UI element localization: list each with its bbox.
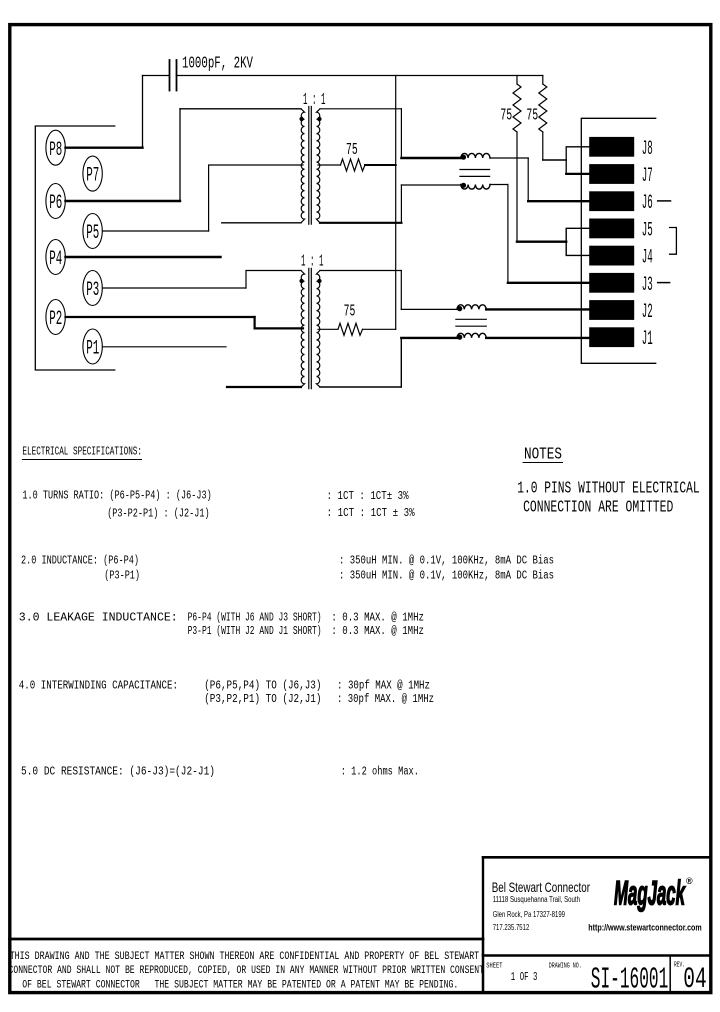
- wire L2 bottom to J1: [486, 337, 589, 339]
- svg-text:75: 75: [346, 140, 358, 159]
- transformer T2 phase dot secondary: [317, 279, 321, 283]
- title block outline: [483, 857, 710, 992]
- wire L1 top to J6: [490, 157, 528, 159]
- svg-text:: 1.2 ohms Max.: : 1.2 ohms Max.: [341, 765, 419, 778]
- svg-text:: 350uH MIN. @ 0.1V, 100KHz, 8: : 350uH MIN. @ 0.1V, 100KHz, 8mA DC Bias: [339, 555, 554, 568]
- pin P4: [46, 240, 65, 275]
- bracket J8/J7: [566, 147, 589, 174]
- svg-text:ELECTRICAL SPECIFICATIONS:: ELECTRICAL SPECIFICATIONS:: [22, 446, 142, 459]
- svg-text:P7: P7: [86, 165, 99, 188]
- svg-text:: 0.3 MAX. @ 1MHz: : 0.3 MAX. @ 1MHz: [331, 611, 424, 624]
- wire P4 stub: [66, 256, 221, 258]
- transformer T2 phase dot primary: [299, 279, 303, 283]
- pin header box (P1-P8 connector outline): [35, 126, 115, 370]
- wire T2 primary bottom stub: [227, 386, 301, 388]
- transformer T1 primary winding: [301, 109, 305, 223]
- bracket J5/J4: [566, 228, 589, 255]
- svg-text:J8: J8: [642, 138, 653, 161]
- transformer T2 primary winding: [301, 271, 305, 388]
- contact J5: [589, 219, 653, 243]
- svg-text:1 : 1: 1 : 1: [303, 90, 326, 109]
- svg-text:75: 75: [500, 106, 512, 125]
- center bus vertical (cap to R2): [395, 76, 397, 330]
- choke L2 core: [456, 319, 486, 326]
- svg-text:75: 75: [344, 302, 356, 321]
- transformer T1 phase dot primary: [299, 117, 303, 121]
- svg-text:1.0 TURNS RATIO: (P6-P5-P4) :: 1.0 TURNS RATIO: (P6-P5-P4) : (J6-J3): [22, 490, 211, 503]
- svg-text:MagJack: MagJack: [614, 875, 686, 913]
- wire capacitor to resistors (top bus): [177, 75, 543, 77]
- svg-text:(P3-P1): (P3-P1): [104, 570, 140, 583]
- svg-text:1000pF, 2KV: 1000pF, 2KV: [182, 54, 253, 73]
- choke L2 top winding: [457, 305, 486, 311]
- svg-text:CONNECTION ARE OMITTED: CONNECTION ARE OMITTED: [523, 498, 673, 517]
- transformer T1 phase dot secondary: [317, 117, 321, 121]
- tick J3: [658, 282, 670, 284]
- wire R3 to J5/J4 bracket: [517, 240, 566, 242]
- svg-text:1 : 1: 1 : 1: [301, 252, 324, 271]
- choke L1 top winding: [461, 153, 490, 159]
- pin P8: [46, 130, 65, 165]
- svg-text:J4: J4: [642, 247, 653, 270]
- svg-text:J7: J7: [642, 165, 653, 188]
- svg-text:http://www.stewartconnector.co: http://www.stewartconnector.com: [588, 922, 701, 933]
- svg-text:OF BEL STEWART CONNECTOR THE: OF BEL STEWART CONNECTOR THE SUBJECT MAT…: [22, 979, 458, 991]
- svg-text:P1: P1: [86, 338, 99, 361]
- wire P8 to capacitor: [66, 146, 143, 148]
- svg-text:717.235.7512: 717.235.7512: [493, 922, 530, 932]
- choke L1 bottom winding: [461, 183, 490, 189]
- svg-text:: 30pf MAX. @ 1MHz: : 30pf MAX. @ 1MHz: [337, 693, 434, 706]
- wire R4 to J8/J7 bracket: [543, 159, 566, 161]
- choke L2 bottom winding: [457, 333, 486, 339]
- svg-text:Bel Stewart Connector: Bel Stewart Connector: [492, 879, 591, 895]
- contact J8: [589, 137, 653, 161]
- tick J6: [658, 200, 671, 202]
- wire T1 primary bottom stub: [222, 222, 301, 224]
- pin P5: [83, 214, 102, 249]
- pin P1: [83, 329, 102, 364]
- svg-text:J5: J5: [642, 219, 653, 242]
- svg-text:P6-P4 (WITH J6 AND J3 SHORT): P6-P4 (WITH J6 AND J3 SHORT): [188, 611, 322, 624]
- transformer T1 secondary winding: [317, 109, 321, 223]
- transformer T1 core: [309, 107, 312, 225]
- heading NOTES: [523, 445, 562, 464]
- svg-text:1.0 PINS WITHOUT ELECTRICAL: 1.0 PINS WITHOUT ELECTRICAL: [517, 479, 699, 498]
- svg-text:: 350uH MIN. @ 0.1V, 100KHz, 8: : 350uH MIN. @ 0.1V, 100KHz, 8mA DC Bias: [339, 570, 554, 583]
- contact J1: [589, 327, 653, 351]
- svg-text:: 30pf MAX @ 1MHz: : 30pf MAX @ 1MHz: [337, 680, 430, 693]
- wire T1 secondary bottom: [320, 222, 401, 224]
- capacitor C1 1000pF 2KV: [143, 60, 177, 91]
- wire L1 bottom to J3: [490, 184, 508, 186]
- svg-text:P4: P4: [49, 248, 62, 271]
- pin P2: [46, 300, 65, 335]
- svg-text:®: ®: [686, 876, 693, 886]
- svg-text:THIS DRAWING AND THE SUBJECT M: THIS DRAWING AND THE SUBJECT MATTER SHOW…: [10, 951, 480, 963]
- wire P3 to T2 primary top: [103, 287, 247, 289]
- svg-text:(P6,P5,P4) TO (J6,J3): (P6,P5,P4) TO (J6,J3): [204, 680, 321, 693]
- resistor R4 75 (right vertical): [539, 76, 547, 161]
- svg-text:(P3,P2,P1) TO (J2,J1): (P3,P2,P1) TO (J2,J1): [204, 693, 321, 706]
- svg-text:J6: J6: [642, 192, 653, 215]
- svg-text:4.0 INTERWINDING CAPACITANCE:: 4.0 INTERWINDING CAPACITANCE:: [19, 680, 178, 693]
- wire P5 to T1 primary center tap: [103, 230, 209, 232]
- svg-text:: 1CT : 1CT± 3%: : 1CT : 1CT± 3%: [327, 490, 409, 503]
- svg-text:5.0 DC RESISTANCE: (J6-J3)=(J2: 5.0 DC RESISTANCE: (J6-J3)=(J2-J1): [21, 765, 215, 778]
- pin P3: [83, 271, 102, 306]
- contact J4: [589, 246, 653, 270]
- resistor R2 75 (T2 termination): [318, 323, 396, 335]
- resistor R3 75 (left vertical): [513, 76, 521, 242]
- jack outline (J1-J8 connector): [581, 118, 655, 363]
- MagJack logo: [614, 875, 693, 913]
- svg-text:SI-16001: SI-16001: [591, 963, 669, 998]
- transformer T2 secondary winding: [317, 271, 321, 388]
- bracket J5/J4 right: [670, 228, 677, 255]
- disclaimer box: [10, 939, 484, 992]
- svg-text:J3: J3: [642, 274, 653, 297]
- wire T1 secondary top: [320, 108, 401, 110]
- svg-text:2.0 INDUCTANCE: (P6-P4): 2.0 INDUCTANCE: (P6-P4): [21, 555, 139, 568]
- svg-text:P6: P6: [49, 192, 62, 215]
- svg-text:P3: P3: [86, 279, 99, 302]
- svg-text:DRAWING NO.: DRAWING NO.: [549, 962, 582, 970]
- svg-text:P8: P8: [49, 139, 62, 162]
- svg-text:(P3-P2-P1) : (J2-J1): (P3-P2-P1) : (J2-J1): [107, 508, 209, 521]
- pin P7: [83, 156, 102, 191]
- contact J3: [589, 273, 653, 297]
- pin P6: [46, 184, 65, 219]
- wire riser P8: [142, 76, 144, 148]
- svg-text:: 0.3 MAX. @ 1MHz: : 0.3 MAX. @ 1MHz: [331, 625, 424, 638]
- svg-text:P3-P1 (WITH J2 AND J1 SHORT): P3-P1 (WITH J2 AND J1 SHORT): [188, 625, 322, 638]
- svg-text:J2: J2: [642, 301, 653, 324]
- wire T2 secondary top: [320, 270, 401, 272]
- svg-text:75: 75: [526, 106, 538, 125]
- contact J6: [589, 191, 653, 215]
- svg-text:P5: P5: [86, 222, 99, 245]
- svg-text:J1: J1: [642, 328, 653, 351]
- contact J7: [589, 164, 653, 188]
- svg-text:SHEET: SHEET: [486, 962, 503, 970]
- svg-text:: 1CT : 1CT ± 3%: : 1CT : 1CT ± 3%: [327, 507, 415, 520]
- wire T2 secondary bottom: [320, 386, 401, 388]
- wire P1 stub: [103, 346, 227, 348]
- svg-text:CONNECTOR AND SHALL NOT BE REP: CONNECTOR AND SHALL NOT BE REPRODUCED, C…: [9, 965, 485, 977]
- resistor R1 75 (T1 termination): [318, 159, 396, 171]
- svg-text:04: 04: [683, 963, 706, 997]
- wire L2 top to J2: [486, 308, 589, 310]
- wire P2 to T2 primary center tap: [66, 316, 255, 318]
- wire P6 to T1 primary top: [66, 200, 181, 202]
- transformer T2 core: [309, 268, 312, 388]
- svg-text:11118 Susquehanna Trail, South: 11118 Susquehanna Trail, South: [493, 894, 580, 904]
- svg-text:NOTES: NOTES: [524, 445, 562, 464]
- svg-text:3.0 LEAKAGE INDUCTANCE:: 3.0 LEAKAGE INDUCTANCE:: [19, 611, 178, 624]
- contact J2: [589, 300, 653, 324]
- svg-text:Glen Rock, Pa 17327-8199: Glen Rock, Pa 17327-8199: [493, 909, 565, 919]
- choke L1 core: [460, 170, 490, 177]
- svg-text:1 OF 3: 1 OF 3: [511, 970, 538, 984]
- heading ELECTRICAL SPECIFICATIONS: [22, 446, 142, 460]
- svg-text:P2: P2: [49, 308, 62, 331]
